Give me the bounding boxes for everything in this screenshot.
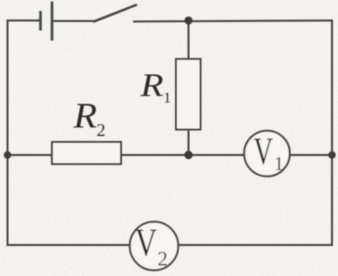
voltmeter V1 [244, 131, 290, 177]
voltmeter V2 [130, 222, 178, 270]
label R1 [139, 68, 171, 107]
wire R1 branch vertical [188, 21, 190, 156]
wire left vertical [7, 21, 9, 246]
resistor R2 [52, 142, 121, 164]
node junction middle (R1 to node row) [184, 151, 192, 159]
wire switch to top-right corner [134, 21, 332, 22]
switch S1 (open lever) [94, 5, 136, 22]
battery cell [41, 2, 53, 41]
svg-text:R: R [139, 68, 163, 104]
label V2 [135, 221, 168, 271]
svg-text:V: V [135, 221, 157, 265]
node junction top (R1 to top wire) [185, 17, 193, 25]
wire top-left (left corner to battery) [8, 21, 41, 61]
svg-text:2: 2 [158, 249, 168, 271]
node junction left (node row to left wire) [4, 151, 12, 159]
wire battery to switch [53, 20, 95, 22]
label V1 [254, 130, 284, 175]
svg-text:1: 1 [274, 154, 284, 175]
label R2 [72, 96, 105, 141]
svg-text:R: R [72, 96, 97, 136]
svg-text:2: 2 [97, 120, 106, 140]
wire right vertical [331, 21, 333, 246]
svg-text:1: 1 [164, 91, 172, 107]
svg-text:V: V [254, 130, 274, 173]
wire bottom [8, 244, 333, 246]
node junction right (node row to right wire) [328, 151, 336, 159]
wire middle horizontal (node row) [8, 154, 333, 156]
resistor R1 [176, 59, 201, 130]
